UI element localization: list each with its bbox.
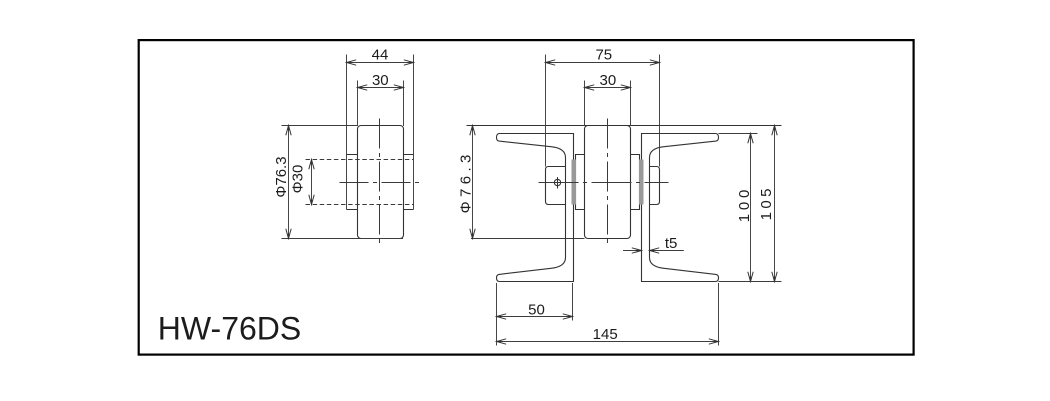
t5 right leader with arrow xyxy=(650,250,684,252)
grease hole circle on left web xyxy=(554,179,560,185)
svg-text:75: 75 xyxy=(595,47,612,64)
drawing border frame xyxy=(139,40,914,355)
svg-text:HW-76DS: HW-76DS xyxy=(158,311,301,347)
hub right (front view) xyxy=(631,155,640,210)
svg-text:44: 44 xyxy=(372,47,389,64)
hub left (side view) xyxy=(347,155,358,210)
dim 44 line xyxy=(347,62,414,64)
svg-text:30: 30 xyxy=(372,72,389,89)
dim 105 bottom extension line xyxy=(719,281,782,283)
axle boss left xyxy=(546,167,566,205)
dim 50 extension lines xyxy=(497,283,573,346)
dim 100 line xyxy=(750,134,752,282)
washer left (gray) xyxy=(572,160,577,205)
dim 30 extension lines (side view) xyxy=(358,81,404,127)
vertical centerline (front view) xyxy=(607,119,609,247)
svg-text:50: 50 xyxy=(528,302,545,319)
right bracket channel profile xyxy=(642,134,719,282)
dim 145 right extension line xyxy=(718,283,720,346)
wheel outline (side view) xyxy=(358,126,404,239)
t5 left leader with arrow xyxy=(623,250,642,252)
svg-text:Φ76.3: Φ76.3 xyxy=(273,156,290,197)
dim Φ76.3 extension lines (side view) xyxy=(282,126,404,239)
axle boss right xyxy=(650,167,660,205)
dim 75 line xyxy=(546,62,660,64)
dim 100 top extension line xyxy=(719,133,758,135)
dim 30 line (front view) xyxy=(585,87,631,89)
dim Φ76.3 line (side view) xyxy=(288,126,290,239)
vertical centerline (side view) xyxy=(379,119,381,247)
horizontal centerline (front view) xyxy=(539,182,669,184)
dim Φ76.3 line (front view) xyxy=(472,126,474,239)
hub left (front view) xyxy=(576,155,585,210)
dim 30 extension lines (front view) xyxy=(585,81,631,127)
svg-text:30: 30 xyxy=(600,72,617,89)
dim 145 line xyxy=(497,341,719,343)
svg-text:Φ30: Φ30 xyxy=(290,165,307,194)
dim Φ30 line (side view) xyxy=(311,160,313,205)
top tangent line of wheel / extension xyxy=(467,125,782,127)
dim 44 extension lines xyxy=(347,55,414,210)
dim 50 line xyxy=(497,316,573,318)
hidden bore lines Φ30 (side view) xyxy=(306,160,414,205)
svg-text:100: 100 xyxy=(736,186,753,222)
left bracket channel profile xyxy=(497,134,574,282)
horizontal centerline (side view) xyxy=(340,182,421,184)
grease hole vertical tick xyxy=(557,177,559,189)
svg-text:105: 105 xyxy=(758,185,775,220)
bottom tangent extension line of wheel xyxy=(471,238,585,240)
svg-text:Φ76.3: Φ76.3 xyxy=(457,150,474,213)
dim 105 line xyxy=(774,126,776,282)
washer right (gray) xyxy=(639,160,644,205)
wheel outline (front view) xyxy=(585,126,631,239)
dim 30 line (side view) xyxy=(358,87,404,89)
dim 75 extension lines xyxy=(546,55,660,167)
svg-text:145: 145 xyxy=(593,326,618,343)
hub right (side view) xyxy=(404,155,414,210)
svg-text:t5: t5 xyxy=(665,235,678,252)
